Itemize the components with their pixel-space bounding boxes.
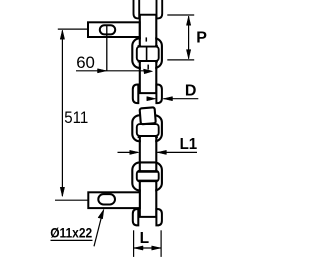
- dim L extension lines: [133, 230, 135, 257]
- ring 3 hole: [137, 124, 159, 136]
- leader underline Ø11x22: [51, 239, 93, 241]
- dim 511 bottom extension line: [55, 199, 88, 201]
- link 3 fill through ring 4 top: [141, 164, 155, 171]
- arrow D outer (points left at ear): [163, 97, 172, 101]
- dim 60 horizontal line: [76, 70, 150, 72]
- svg-text:P: P: [196, 30, 207, 47]
- svg-text:L1: L1: [180, 136, 198, 153]
- ring 2 left ear (chain break): [133, 85, 139, 104]
- ring 5 left ear (chain end): [133, 209, 139, 225]
- top attachment plate: [88, 22, 140, 37]
- dim P top extension: [167, 14, 194, 16]
- dim P bottom extension: [167, 59, 194, 61]
- chain vertical link 1 (face-on), top edge: [140, 14, 157, 16]
- link 4 vertical edges: [139, 181, 141, 217]
- svg-text:L: L: [140, 230, 149, 247]
- bottom plate slot: [98, 194, 115, 204]
- leader arrowhead: [98, 209, 104, 219]
- dim 511 vertical line: [61, 31, 63, 197]
- ring 5 right ear: [156, 209, 162, 225]
- arrow L1 right (points left): [157, 150, 166, 154]
- link 2 vertical edges: [139, 60, 141, 93]
- slot center line: [106, 25, 108, 70]
- chain ring 4 (edge-on link): [132, 162, 162, 190]
- link 1 body fill: [141, 16, 155, 46]
- link 4 bottom end: [139, 216, 159, 218]
- top plate slot: [100, 25, 115, 34]
- top half-link left ear: [134, 0, 140, 18]
- svg-text:60: 60: [76, 53, 95, 72]
- ring 1 hole divider: [145, 37, 147, 41]
- arrow up 511: [60, 30, 64, 39]
- arrow 60 at chain: [144, 69, 153, 74]
- arrow 60 at slot center: [98, 69, 107, 73]
- arrow P down: [186, 50, 190, 59]
- dim L arrow line: [134, 247, 161, 249]
- arrow L right: [152, 246, 161, 250]
- top half-link right ear: [157, 0, 163, 18]
- arrow P up: [186, 16, 190, 25]
- svg-text:D: D: [185, 83, 197, 100]
- leader slant line: [94, 213, 103, 247]
- tilted loose link: [140, 107, 156, 124]
- link 2 center tick below ring 1: [147, 65, 149, 70]
- arrow D inner (points right at ear): [147, 97, 156, 101]
- dimension lines (thin): [51, 15, 199, 257]
- link 4 body fill: [141, 182, 155, 216]
- dim 511 top extension line: [58, 28, 89, 30]
- dim P vertical: [188, 16, 190, 59]
- dim L1 right line: [157, 151, 197, 153]
- link 2 bottom end: [139, 92, 159, 94]
- arrow L1 left (points right): [130, 150, 139, 154]
- chain ring 1 (edge-on link): [132, 38, 162, 68]
- arrow down 511: [60, 187, 64, 196]
- chain vertical link 3 (face-on): [141, 137, 155, 165]
- link 2 body fill: [141, 62, 155, 92]
- arrow L left: [134, 246, 143, 250]
- dim L1 left line: [118, 151, 138, 153]
- svg-text:511: 511: [64, 108, 88, 127]
- chain ring 3 (edge-on link): [132, 115, 162, 141]
- link 1 vertical edges: [139, 15, 141, 47]
- dim D line: [163, 98, 198, 100]
- ring 2 right ear: [156, 85, 162, 104]
- svg-text:Ø11x22: Ø11x22: [50, 226, 92, 241]
- link 3 vertical edges through ring 4: [139, 162, 141, 171]
- bottom attachment plate: [88, 192, 140, 208]
